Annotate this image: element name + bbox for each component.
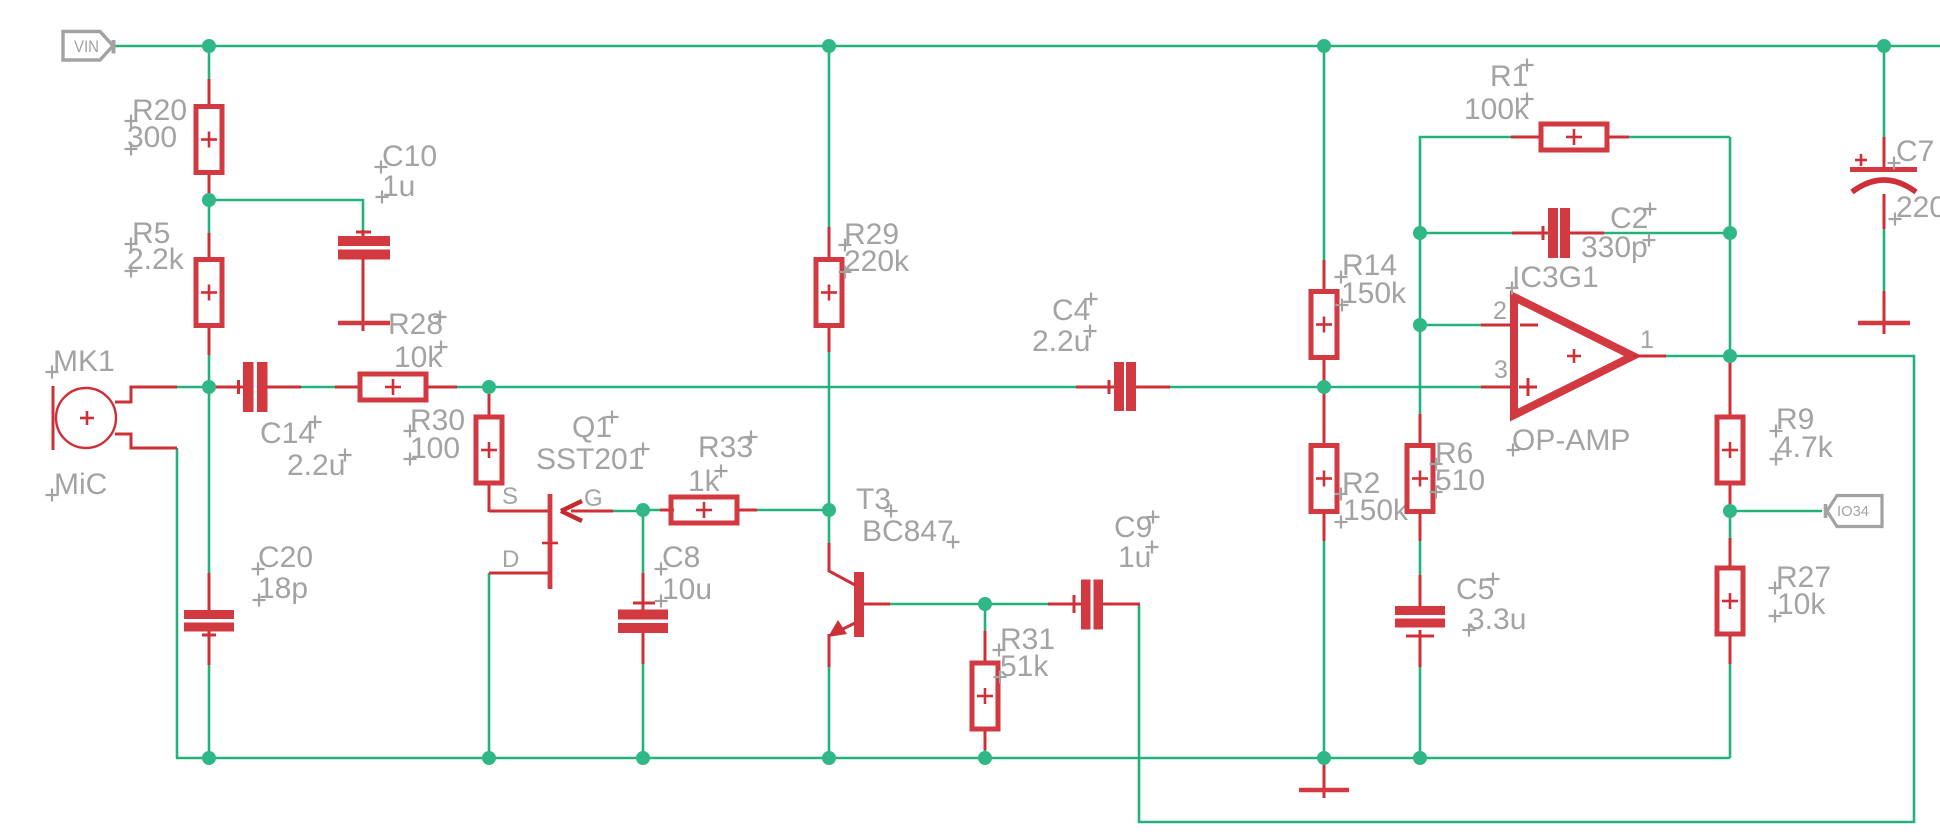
- label R33: [688, 431, 758, 499]
- label R31: [993, 623, 1056, 684]
- label C14: [260, 416, 352, 483]
- svg-text:3: 3: [1494, 356, 1508, 384]
- junction node 19 at 643,758: [636, 751, 650, 765]
- label C5: [1456, 573, 1526, 637]
- svg-text:C10: C10: [382, 140, 437, 173]
- junction node 20 at 829,758: [822, 751, 836, 765]
- junction node 6 at 209,387: [202, 380, 216, 394]
- junction node 7 at 489,387: [482, 380, 496, 394]
- resistor R6: [1407, 414, 1433, 541]
- junction node 2 at 829,46: [822, 39, 836, 53]
- svg-text:R28: R28: [388, 308, 443, 341]
- capacitor C10: [338, 230, 390, 331]
- svg-text:C8: C8: [662, 541, 700, 574]
- resistor R30: [476, 394, 502, 512]
- wire R20 top: [208, 46, 211, 79]
- svg-text:MK1: MK1: [53, 345, 115, 378]
- capacitor C14: [211, 362, 301, 412]
- wire signal rail right: [1169, 386, 1481, 389]
- label R5: [125, 217, 185, 278]
- wire R31 to bottom rail: [984, 749, 987, 758]
- wire T3 emitter to bottom rail: [828, 666, 831, 758]
- wire VIN top rail: [114, 45, 1940, 48]
- junction node 22 at 1324,758: [1317, 751, 1331, 765]
- supply flag VIN: [63, 32, 114, 61]
- junction node 12 at 1420,233: [1413, 226, 1427, 240]
- wire node C to R33: [643, 509, 661, 512]
- label R20: [125, 94, 188, 156]
- svg-text:2.2u: 2.2u: [287, 449, 345, 482]
- wire C7 bottom: [1883, 229, 1886, 292]
- wire mic bottom to bottom rail: [176, 448, 179, 758]
- label S: [502, 483, 518, 510]
- wire pin2 node to R6: [1419, 325, 1422, 415]
- junction node 18 at 489,758: [482, 751, 496, 765]
- junction node 1 at 209,46: [202, 39, 216, 53]
- resistor R33: [660, 497, 757, 523]
- label R1: [1464, 59, 1534, 127]
- label MK1: [46, 345, 115, 379]
- pin 2: [1493, 297, 1507, 325]
- resistor R9: [1717, 358, 1743, 512]
- resistor R2: [1311, 390, 1337, 541]
- wire C2 left: [1420, 232, 1514, 235]
- svg-text:MiC: MiC: [54, 468, 107, 501]
- svg-text:VIN: VIN: [74, 37, 99, 56]
- label R6: [1430, 437, 1486, 499]
- svg-text:330p: 330p: [1581, 231, 1648, 264]
- wire R27 top: [1729, 511, 1732, 539]
- svg-text:SST201: SST201: [536, 443, 644, 476]
- label R9: [1770, 403, 1834, 466]
- junction node 11 at 985,604: [978, 597, 992, 611]
- wire C7 top: [1883, 46, 1886, 138]
- svg-text:3.3u: 3.3u: [1468, 603, 1526, 636]
- svg-text:4.7k: 4.7k: [1776, 431, 1834, 464]
- junction node 3 at 1324,46: [1317, 39, 1331, 53]
- wire C8 to bottom rail: [642, 663, 645, 758]
- wire R20 to node A: [208, 195, 211, 234]
- capacitor C8: [618, 573, 668, 664]
- capacitor C9: [1048, 580, 1140, 630]
- microphone MK1: [53, 386, 177, 450]
- resistor R27: [1717, 538, 1743, 664]
- capacitor C7: [1850, 137, 1917, 334]
- wire R29 to node D to T3 collector: [828, 351, 831, 544]
- wire R1 right: [1628, 136, 1730, 139]
- wire node E to C9: [985, 603, 1049, 606]
- pin 3: [1494, 356, 1508, 384]
- wire feedback column right: [1729, 137, 1732, 356]
- label C10: [375, 140, 438, 204]
- junction node 14 at 1730,233: [1723, 226, 1737, 240]
- junction node 4 at 1884,46: [1877, 39, 1891, 53]
- label C7: [1888, 135, 1940, 226]
- wire R14 top: [1323, 46, 1326, 261]
- junction node 10 at 829,510: [822, 503, 836, 517]
- label R28: [388, 308, 448, 374]
- label G: [584, 485, 603, 512]
- label R29: [839, 218, 911, 279]
- label C2: [1581, 202, 1657, 264]
- junction node 17 at 209,758: [202, 751, 216, 765]
- svg-text:G: G: [584, 485, 603, 512]
- resistor R1: [1511, 124, 1629, 150]
- wire mic top pin: [177, 386, 205, 389]
- wire output feedback loop: [1139, 356, 1914, 822]
- svg-text:C7: C7: [1896, 135, 1934, 168]
- svg-text:10k: 10k: [1777, 588, 1826, 621]
- transistor T3: [828, 543, 890, 667]
- wire R33 to node D: [756, 509, 830, 512]
- svg-text:100k: 100k: [1464, 93, 1530, 126]
- label IC3G1: [1506, 261, 1599, 295]
- svg-text:S: S: [502, 483, 518, 510]
- svg-text:510: 510: [1435, 464, 1485, 497]
- resistor R20: [196, 79, 222, 196]
- wire R2 to bottom rail: [1323, 540, 1326, 758]
- wire R5 to mic node: [208, 355, 211, 388]
- wire output node to IO34: [1730, 510, 1822, 513]
- svg-text:18p: 18p: [258, 572, 308, 605]
- label R2: [1335, 467, 1410, 529]
- junction node 5 at 209,200: [202, 193, 216, 207]
- wire R6 to C5: [1419, 540, 1422, 576]
- svg-text:51k: 51k: [1000, 650, 1049, 683]
- svg-text:220u: 220u: [1896, 191, 1940, 224]
- capacitor C5: [1395, 575, 1445, 667]
- capacitor C20: [184, 573, 234, 665]
- wire mic node down to C20: [208, 387, 211, 574]
- junction node 9 at 643,510: [636, 503, 650, 517]
- svg-text:100: 100: [410, 432, 460, 465]
- label D: [502, 546, 519, 573]
- flag IO34: [1826, 496, 1883, 527]
- svg-text:IC3G1: IC3G1: [1512, 261, 1599, 294]
- label Q1: [536, 411, 650, 477]
- ground under C7: [1858, 321, 1910, 326]
- wire feedback column left: [1420, 137, 1512, 326]
- svg-text:C14: C14: [260, 417, 315, 450]
- junction node 23 at 1420,758: [1413, 751, 1427, 765]
- label C20: [252, 541, 314, 607]
- label T3: [856, 483, 960, 549]
- ground under C10: [338, 321, 390, 326]
- capacitor C2: [1512, 208, 1604, 258]
- junction node 15 at 1730,356: [1723, 349, 1737, 363]
- resistor R31: [972, 631, 998, 750]
- label R27: [1769, 561, 1832, 623]
- svg-text:IO34: IO34: [1837, 503, 1869, 520]
- wire C20 to bottom rail: [208, 664, 211, 758]
- wire T3 base to node E: [889, 603, 986, 606]
- pin 1: [1640, 326, 1654, 354]
- resistor R28: [335, 374, 457, 400]
- label C4: [1032, 293, 1098, 359]
- label R30: [404, 404, 466, 466]
- resistor R5: [196, 233, 222, 355]
- wire R28 to node B: [456, 386, 490, 389]
- capacitor C4: [1076, 362, 1170, 411]
- wire signal rail left: [489, 386, 1077, 389]
- svg-text:150k: 150k: [1343, 494, 1409, 527]
- svg-text:BC847: BC847: [862, 515, 954, 548]
- svg-text:220k: 220k: [844, 245, 910, 278]
- label C9: [1114, 511, 1160, 575]
- svg-text:D: D: [502, 546, 519, 573]
- wire C5 to bottom rail: [1419, 666, 1422, 758]
- junction node 21 at 985,758: [978, 751, 992, 765]
- wire R27 to bottom rail: [1729, 663, 1732, 758]
- wire op-amp pin2: [1420, 324, 1482, 327]
- svg-text:2.2u: 2.2u: [1032, 325, 1090, 358]
- wire bottom rail: [176, 757, 1730, 760]
- junction node 8 at 1324,387: [1317, 380, 1331, 394]
- label R14: [1335, 249, 1408, 312]
- junction node 16 at 1730,511: [1723, 504, 1737, 518]
- wire node C to C8: [642, 510, 645, 574]
- wire node E to R31: [984, 604, 987, 633]
- junction node 13 at 1420,325: [1413, 318, 1427, 332]
- label C8: [655, 541, 713, 608]
- wire C14 to R28: [300, 386, 336, 389]
- op-amp IC3G1: [1481, 297, 1666, 415]
- svg-text:2: 2: [1493, 297, 1507, 325]
- wire Q1 gate to node C: [612, 510, 644, 513]
- label OP-AMP: [1507, 424, 1631, 457]
- svg-text:C20: C20: [258, 541, 313, 574]
- svg-text:OP-AMP: OP-AMP: [1512, 424, 1630, 457]
- svg-text:10u: 10u: [662, 573, 712, 606]
- wire node A to C10: [209, 200, 363, 231]
- wire R29 top: [828, 46, 831, 228]
- label MiC: [46, 468, 108, 502]
- svg-text:1: 1: [1640, 326, 1654, 354]
- svg-text:150k: 150k: [1341, 277, 1407, 310]
- resistor R29: [816, 227, 842, 352]
- wire Q1 drain to bottom rail: [488, 573, 491, 758]
- wire C2 right: [1603, 232, 1730, 235]
- transistor Q1: [489, 494, 613, 589]
- ground GND1: [1299, 760, 1349, 798]
- resistor R14: [1311, 260, 1337, 388]
